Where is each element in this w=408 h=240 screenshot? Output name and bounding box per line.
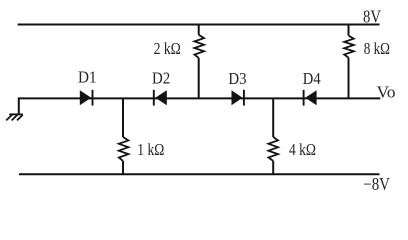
svg-text:4 kΩ: 4 kΩ bbox=[289, 140, 316, 159]
wire bottom rail -8V bbox=[19, 173, 380, 175]
wire 2k branch upper segment bbox=[198, 25, 200, 35]
resistor R 4k zigzag bbox=[268, 137, 278, 161]
svg-text:Vo: Vo bbox=[377, 83, 396, 102]
svg-text:8 kΩ: 8 kΩ bbox=[364, 39, 390, 58]
wire 1k branch upper segment bbox=[122, 98, 124, 137]
resistor R 8k zigzag bbox=[344, 36, 354, 58]
wire 2k branch lower segment bbox=[198, 58, 200, 99]
svg-text:D2: D2 bbox=[152, 69, 170, 88]
wire top rail +8V bbox=[18, 24, 380, 26]
svg-text:2 kΩ: 2 kΩ bbox=[154, 39, 181, 58]
wire 1k branch lower segment bbox=[122, 161, 124, 174]
wire 8k branch lower segment bbox=[348, 58, 350, 99]
svg-text:1 kΩ: 1 kΩ bbox=[137, 140, 164, 159]
ground bbox=[6, 114, 23, 120]
svg-text:D3: D3 bbox=[228, 69, 246, 88]
wire middle diode-chain line from ground corner to Vo bbox=[19, 98, 381, 114]
svg-text:8V: 8V bbox=[363, 6, 381, 26]
wire 4k branch lower segment bbox=[272, 161, 274, 174]
diode D3 bbox=[232, 90, 244, 106]
wire 4k branch upper segment bbox=[272, 98, 274, 137]
wire 8k branch upper segment bbox=[348, 25, 350, 36]
svg-text:−8V: −8V bbox=[363, 174, 390, 194]
resistor R 2k zigzag bbox=[194, 35, 204, 58]
diode D4 bbox=[304, 90, 317, 106]
diode D1 bbox=[80, 90, 93, 106]
svg-text:D4: D4 bbox=[303, 69, 321, 88]
svg-text:D1: D1 bbox=[78, 68, 97, 87]
diode D2 bbox=[154, 90, 167, 106]
resistor R 1k zigzag bbox=[119, 137, 129, 161]
